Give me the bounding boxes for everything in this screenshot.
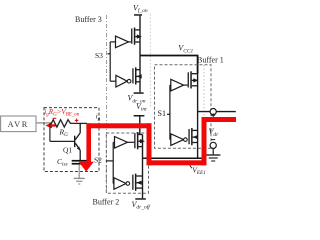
wire: buffer2 output rail [142,135,144,199]
wire: S1 input stub [167,113,170,115]
svg-text:Q1: Q1 [63,146,72,155]
red path: segment to V_dr terminal (top right) [202,117,237,122]
gate-model dashed box [44,108,99,172]
wire: buffer3 input fork [110,42,116,81]
wire: triangle to gate (b3 top) [129,41,132,43]
red path: buffer2 vertical [147,123,152,165]
transistor Q1 [74,123,80,160]
red path: top horizontal [86,123,151,128]
polarity minus (red) [53,117,57,119]
wire: capacitor to ground [78,165,80,179]
inverter triangle buffer2 bottom [114,178,126,190]
driver triangle buffer1 top [171,79,184,91]
svg-text:AVR: AVR [8,120,29,129]
wire: terminal to ground [212,149,214,155]
wire: triangle to gate (b1 top) [184,84,188,86]
supply V_dr_on bar [134,92,144,94]
wire: node branch to Q1 base [50,123,74,141]
supply V_int bar [134,115,145,117]
wire: V_int stem [139,117,141,135]
red path: C_iss vertical [86,123,91,162]
red path: buffer1 vertical [202,117,207,165]
wire: V_f_on rail (buffer 3 vertical) [139,16,141,93]
wire: buffer1 input fork [169,85,172,140]
faint projection line (top) [149,14,151,107]
ground (right) [206,155,220,161]
terminal circle (-) [210,142,216,148]
mosfet buffer2 top [134,132,145,149]
label V_EE1 leader [189,164,192,169]
svg-text:Buffer 2: Buffer 2 [93,198,120,207]
ground (C_iss) [74,178,85,184]
svg-text:S1: S1 [158,109,166,118]
buffer 1 dashed box [155,65,212,148]
inverter bubble (b3 bottom) [127,79,131,83]
wire: S3 input stub [108,53,111,55]
supply V_dr_off bar [135,198,146,200]
red current arrow (into AVR) [45,123,52,129]
mosfet buffer3 bottom [132,67,141,84]
buffer 2 dashed box [106,133,148,193]
inverter bubble (b1 bottom) [184,138,188,142]
wire: buffer3 output to VCC1 node [140,55,198,57]
svg-text:Buffer 1: Buffer 1 [197,56,224,65]
inverter bubble (b2 bottom) [126,182,130,186]
faint projection line (buffer 1) [203,65,205,117]
mosfet buffer1 top [188,71,199,88]
mosfet buffer3 top [131,28,142,45]
wire: VCC1 corner into buffer1 [197,56,199,74]
wire: buffer1 output rail [197,74,199,159]
minus sign [211,139,215,141]
AVR box [1,116,36,132]
inverter triangle buffer1 bottom [171,134,184,146]
supply V_f_on bar [134,14,142,16]
isolation barrier dash-dot line [106,15,108,194]
wire: buffer2 input fork [113,142,114,183]
wire: triangle to gate (b2 top) [128,141,135,143]
mosfet buffer1 bottom [188,128,197,145]
mosfet buffer2 bottom [132,174,142,191]
wire: V_EE1 rail [143,157,204,159]
wire: S2 input stub [106,160,113,162]
resistor R_G [50,120,73,127]
plus sign [211,113,215,117]
wire: output to terminal V_dr [198,111,236,113]
svg-text:S2: S2 [94,156,102,165]
terminal circle (+) [210,109,216,115]
svg-text:Buffer 3: Buffer 3 [75,15,102,24]
red path: arrowhead into C_iss [79,162,94,172]
wire: resistor to node [73,122,87,124]
svg-text:S3: S3 [95,51,103,60]
polarity plus (red) [75,119,79,123]
driver triangle buffer3 top [116,36,129,48]
capacitor C_iss [72,160,87,162]
driver triangle buffer2 top [115,137,128,149]
wire: S2 output tap [143,157,149,159]
inverter triangle buffer3 bottom [116,75,127,87]
red path: bottom horizontal [147,160,207,165]
wire: AVR output [36,122,51,124]
